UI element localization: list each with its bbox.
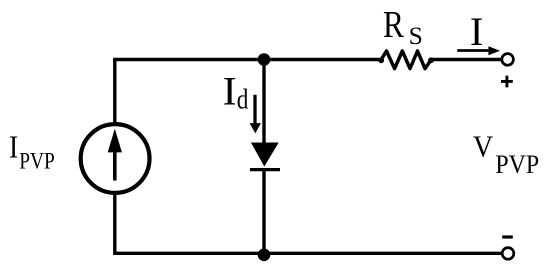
negative terminal circle xyxy=(502,248,514,260)
wire: node A down to diode anode xyxy=(262,60,265,145)
plus sign xyxy=(501,76,513,88)
wire: diode cathode down to node B xyxy=(262,170,265,254)
node A junction dot xyxy=(258,53,271,66)
svg-text:R: R xyxy=(383,4,404,46)
svg-text:PVP: PVP xyxy=(19,149,55,175)
resistor RS zigzag xyxy=(378,51,433,69)
diode D cathode bar xyxy=(250,168,280,171)
svg-text:I: I xyxy=(470,9,484,54)
svg-text:I: I xyxy=(223,69,237,114)
svg-text:V: V xyxy=(473,131,493,164)
diode D triangle (anode) xyxy=(251,143,279,167)
node B junction dot xyxy=(258,249,271,262)
current source arrow (pointing up) xyxy=(108,129,122,181)
diode current arrow Id (pointing down) xyxy=(250,95,261,134)
svg-text:I: I xyxy=(9,130,18,165)
minus sign xyxy=(502,235,513,238)
positive terminal circle xyxy=(502,54,514,66)
svg-text:PVP: PVP xyxy=(495,150,539,179)
wire: resistor RS to positive terminal xyxy=(431,58,502,61)
svg-text:S: S xyxy=(409,21,423,50)
wire: current source bottom terminal down and across to node B xyxy=(115,192,264,253)
current source IPVP circle xyxy=(81,124,150,193)
wire: node A to resistor RS xyxy=(264,58,382,61)
wire: current source top terminal up and across to node A xyxy=(115,60,264,126)
wire: node B to negative terminal xyxy=(264,252,502,255)
current arrow I (pointing right) xyxy=(457,46,500,55)
svg-text:d: d xyxy=(237,85,249,116)
